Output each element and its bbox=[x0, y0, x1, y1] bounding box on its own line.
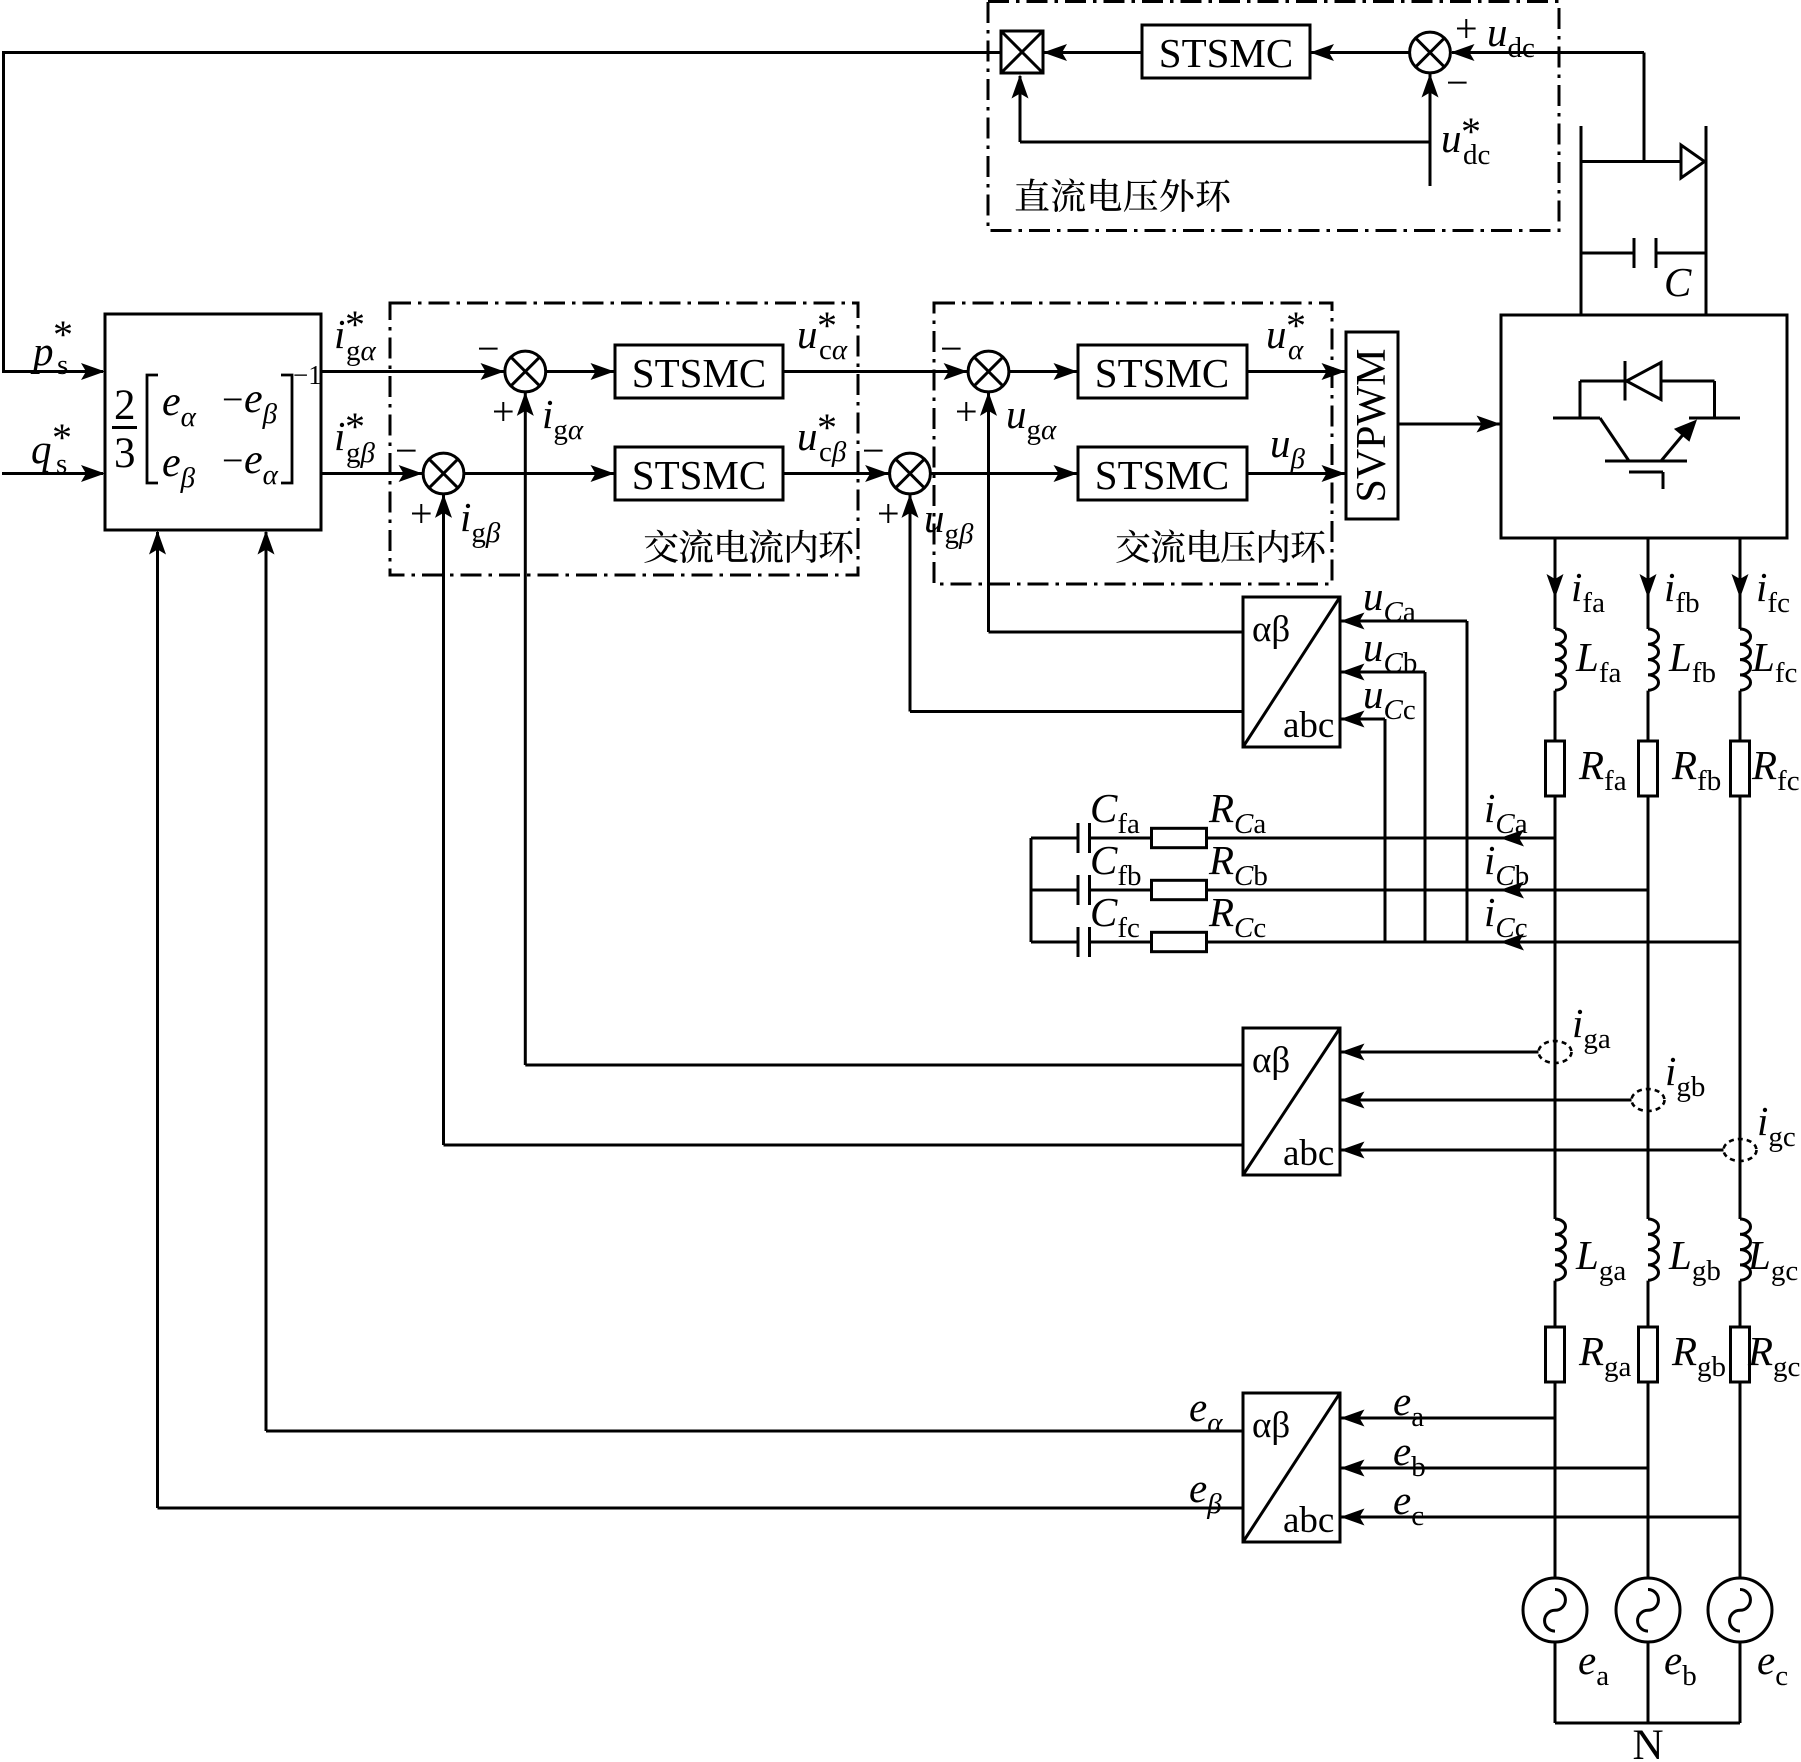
label 直流电压外环 bbox=[1016, 178, 1049, 210]
capacitor C_fb bbox=[1077, 875, 1080, 905]
wire e_c measurement line bbox=[1341, 1516, 1740, 1519]
wire neutral bus bbox=[1555, 1722, 1740, 1725]
wire phase a branch node down to grid inductor bbox=[1554, 838, 1557, 1219]
wire multiplier output to p_s* input (left feedback) bbox=[4, 53, 1002, 372]
summing junction 4 (u_gb) bbox=[890, 453, 931, 494]
summing junction DC (u_dc vs u_dc*) bbox=[1410, 32, 1451, 73]
wire summing junction 4 to STSMC4 bbox=[930, 472, 1077, 475]
resistor R_Ca bbox=[1152, 828, 1207, 847]
svg-text:3: 3 bbox=[114, 430, 136, 477]
resistor R_fc bbox=[1731, 741, 1750, 796]
block power-to-current matrix transform bbox=[105, 314, 321, 530]
svg-text:u: u bbox=[797, 311, 818, 357]
svg-text:−1: −1 bbox=[293, 360, 322, 390]
wire summing junction 3 to STSMC3 bbox=[1009, 370, 1077, 373]
svg-text:αβ: αβ bbox=[1252, 609, 1290, 650]
wire transform2 beta output bbox=[444, 1144, 1244, 1147]
svg-text:i: i bbox=[334, 311, 345, 357]
wire e_beta output to matrix block bbox=[158, 1507, 1244, 1510]
wire summing junction 2 to STSMC2 bbox=[464, 472, 614, 475]
wire i_gb feedback vertical bbox=[442, 495, 445, 1145]
svg-text:STSMC: STSMC bbox=[1159, 30, 1293, 76]
svg-text:u: u bbox=[1266, 311, 1287, 357]
svg-text:−: − bbox=[940, 326, 963, 371]
inductor L_fa bbox=[1555, 629, 1566, 690]
svg-text:q: q bbox=[31, 426, 52, 472]
svg-text:abc: abc bbox=[1283, 1133, 1334, 1174]
wire phase b grid inductor to source bbox=[1647, 1281, 1650, 1578]
label 交流电压内环 bbox=[1116, 530, 1150, 563]
wire DC rail left bbox=[1580, 126, 1583, 315]
wire u_Cb measurement bbox=[1424, 672, 1427, 942]
svg-text:s: s bbox=[57, 349, 68, 381]
svg-text:cα: cα bbox=[819, 334, 848, 366]
wire RC branch a middle segment bbox=[1090, 837, 1152, 840]
svg-text:+: + bbox=[955, 389, 978, 434]
resistor R_fb bbox=[1639, 741, 1658, 796]
wire RC branch c left segment bbox=[1031, 941, 1078, 944]
inductor L_gc bbox=[1740, 1219, 1751, 1280]
wire phase b branch node down to grid inductor bbox=[1647, 890, 1650, 1219]
resistor R_fa bbox=[1546, 741, 1565, 796]
wire RC branch c right segment with i_Cc arrow bbox=[1207, 941, 1741, 944]
wire u_dc into DC summing junction bbox=[1452, 51, 1644, 54]
wire RC branch c middle segment bbox=[1090, 941, 1152, 944]
capacitor C_fa bbox=[1077, 823, 1080, 853]
svg-text:gβ: gβ bbox=[346, 437, 376, 469]
svg-text:u: u bbox=[797, 413, 818, 459]
wire i_gc measurement line bbox=[1341, 1149, 1724, 1152]
source e_b (AC source circle) bbox=[1616, 1578, 1680, 1642]
block abc-to-alphabeta transform 1 (voltages) bbox=[1243, 597, 1340, 747]
wire i_gb* matrix to summing junction 2 bbox=[321, 472, 423, 475]
dash-dot frame: AC voltage inner loop (交流电压内环) bbox=[934, 303, 1332, 584]
wire RC branch a left segment bbox=[1031, 837, 1078, 840]
block abc-to-alphabeta transform 3 (grid emf) bbox=[1243, 1393, 1340, 1542]
svg-text:u: u bbox=[1441, 115, 1462, 161]
svg-text:abc: abc bbox=[1283, 1500, 1334, 1541]
wire DC rail right bbox=[1705, 126, 1708, 315]
wire u_a* STSMC3 to SVPWM bbox=[1247, 370, 1345, 373]
diode D1 (anti-parallel) bbox=[1580, 380, 1625, 383]
svg-text:s: s bbox=[56, 448, 67, 480]
block STSMC3 bbox=[1078, 345, 1247, 398]
svg-text:STSMC: STSMC bbox=[632, 452, 766, 498]
wire source b to neutral bus bbox=[1647, 1642, 1650, 1723]
dash-dot frame: AC current inner loop (交流电流内环) bbox=[390, 303, 858, 575]
svg-text:SVPWM: SVPWM bbox=[1349, 348, 1395, 502]
wire u_ca* STSMC1 to summing junction 3 bbox=[783, 370, 967, 373]
wire RC branch b middle segment bbox=[1090, 889, 1152, 892]
svg-text:gα: gα bbox=[346, 335, 377, 367]
svg-text:i: i bbox=[334, 413, 345, 459]
svg-text:+: + bbox=[492, 389, 515, 434]
wire phase b inductor to branch node bbox=[1647, 691, 1650, 890]
transistor Q1 (IGBT) bbox=[1579, 381, 1582, 418]
svg-text:−: − bbox=[1446, 60, 1469, 105]
wire u_ga feedback bbox=[989, 631, 1244, 634]
svg-text:−: − bbox=[222, 440, 243, 482]
wire SVPWM to converter bbox=[1398, 423, 1500, 426]
wire phase c converter to filter inductor bbox=[1739, 538, 1742, 629]
wire source a to neutral bus bbox=[1554, 1642, 1557, 1723]
wire u_dc tap with buffer triangle bbox=[1581, 160, 1681, 163]
wire phase a converter to filter inductor bbox=[1554, 538, 1557, 629]
svg-text:−: − bbox=[222, 379, 243, 421]
resistor R_gc bbox=[1731, 1327, 1750, 1382]
block STSMC (DC loop) bbox=[1142, 25, 1310, 78]
svg-text:+: + bbox=[1455, 6, 1478, 51]
svg-text:p: p bbox=[30, 328, 54, 374]
wire phase a grid inductor to source bbox=[1554, 1281, 1557, 1578]
inductor L_ga bbox=[1555, 1219, 1566, 1280]
wire u_Cc measurement bbox=[1384, 719, 1387, 942]
summing junction 2 (i_gb) bbox=[423, 453, 464, 494]
resistor R_gb bbox=[1639, 1327, 1658, 1382]
wire source c to neutral bus bbox=[1739, 1642, 1742, 1723]
wire u_b STSMC4 to SVPWM bbox=[1247, 472, 1345, 475]
wire i_ga measurement line bbox=[1341, 1051, 1539, 1054]
source e_a (AC source circle) bbox=[1523, 1578, 1587, 1642]
resistor R_Cc bbox=[1152, 932, 1207, 951]
wire RC branch a right segment with i_Ca arrow bbox=[1207, 837, 1556, 840]
svg-text:αβ: αβ bbox=[1252, 1405, 1290, 1446]
source e_c (AC source circle) bbox=[1708, 1578, 1772, 1642]
wire u_dc sense vertical bbox=[1643, 53, 1646, 162]
wire u_Ca measurement bbox=[1466, 621, 1469, 942]
svg-text:cβ: cβ bbox=[819, 436, 847, 468]
wire e_a measurement line bbox=[1341, 1417, 1555, 1420]
wire phase c inductor to branch node bbox=[1739, 691, 1742, 942]
block STSMC1 bbox=[615, 345, 783, 398]
wire phase b converter to filter inductor bbox=[1647, 538, 1650, 629]
svg-text:−: − bbox=[862, 428, 885, 473]
wire e_b measurement line bbox=[1341, 1467, 1648, 1470]
wire i_gb measurement line bbox=[1341, 1099, 1632, 1102]
wire RC branch common bus bbox=[1030, 838, 1033, 942]
inductor L_fb bbox=[1648, 629, 1659, 690]
block converter (IGBT bridge) bbox=[1501, 315, 1787, 538]
resistor R_Cb bbox=[1152, 880, 1207, 899]
wire RC branch b right segment with i_Cb arrow bbox=[1207, 889, 1649, 892]
wire DC junction to STSMC bbox=[1311, 51, 1410, 54]
summing junction 1 (i_ga) bbox=[505, 351, 546, 392]
wire i_ga* matrix to summing junction 1 bbox=[321, 370, 505, 373]
dash-dot frame: DC voltage outer loop (直流电压外环) bbox=[988, 2, 1559, 231]
wire RC branch b left segment bbox=[1031, 889, 1078, 892]
svg-text:+: + bbox=[877, 491, 900, 536]
wire phase c grid inductor to source bbox=[1739, 1281, 1742, 1578]
svg-text:αβ: αβ bbox=[1252, 1040, 1290, 1081]
wire phase a inductor to branch node bbox=[1554, 691, 1557, 838]
capacitor C (DC link) bbox=[1581, 252, 1634, 255]
resistor R_ga bbox=[1546, 1327, 1565, 1382]
wire u_gb feedback bbox=[910, 710, 1243, 713]
svg-text:N: N bbox=[1632, 1722, 1663, 1762]
svg-text:STSMC: STSMC bbox=[1095, 452, 1229, 498]
current sensor i_gc (dashed circle) bbox=[1724, 1139, 1757, 1161]
svg-text:C: C bbox=[1664, 259, 1692, 305]
summing junction 3 (u_ga) bbox=[968, 351, 1009, 392]
svg-text:α: α bbox=[1288, 334, 1304, 366]
wire e_alpha output to matrix block bbox=[266, 1430, 1243, 1433]
svg-text:abc: abc bbox=[1283, 705, 1334, 746]
block STSMC4 bbox=[1078, 447, 1247, 500]
current sensor i_ga (dashed circle) bbox=[1539, 1041, 1572, 1063]
wire summing junction 1 to STSMC1 bbox=[546, 370, 614, 373]
svg-text:dc: dc bbox=[1463, 139, 1490, 171]
block SVPWM bbox=[1346, 332, 1398, 519]
wire transform2 alpha output bbox=[525, 1064, 1243, 1067]
inductor L_gb bbox=[1648, 1219, 1659, 1280]
wire phase c branch node down to grid inductor bbox=[1739, 942, 1742, 1219]
svg-text:2: 2 bbox=[114, 382, 136, 429]
block STSMC2 bbox=[615, 447, 783, 500]
wire i_ga feedback vertical bbox=[524, 393, 527, 1065]
capacitor C_fc bbox=[1077, 927, 1080, 957]
svg-text:STSMC: STSMC bbox=[1095, 350, 1229, 396]
wire u_dc* reference and feedback to multiplier bbox=[1429, 142, 1432, 186]
wire q_s* input bbox=[2, 472, 103, 475]
svg-text:+: + bbox=[410, 491, 433, 536]
svg-text:−: − bbox=[395, 428, 418, 473]
label 交流电流内环 bbox=[644, 530, 678, 563]
multiplier block (X box) bbox=[1001, 31, 1043, 73]
block abc-to-alphabeta transform 2 (currents) bbox=[1243, 1028, 1340, 1175]
current sensor i_gb (dashed circle) bbox=[1632, 1089, 1665, 1111]
svg-text:STSMC: STSMC bbox=[632, 350, 766, 396]
wire STSMC to multiplier bbox=[1044, 51, 1142, 54]
inductor L_fc bbox=[1740, 629, 1751, 690]
svg-text:−: − bbox=[477, 326, 500, 371]
wire u_cb* STSMC2 to summing junction 4 bbox=[783, 472, 889, 475]
